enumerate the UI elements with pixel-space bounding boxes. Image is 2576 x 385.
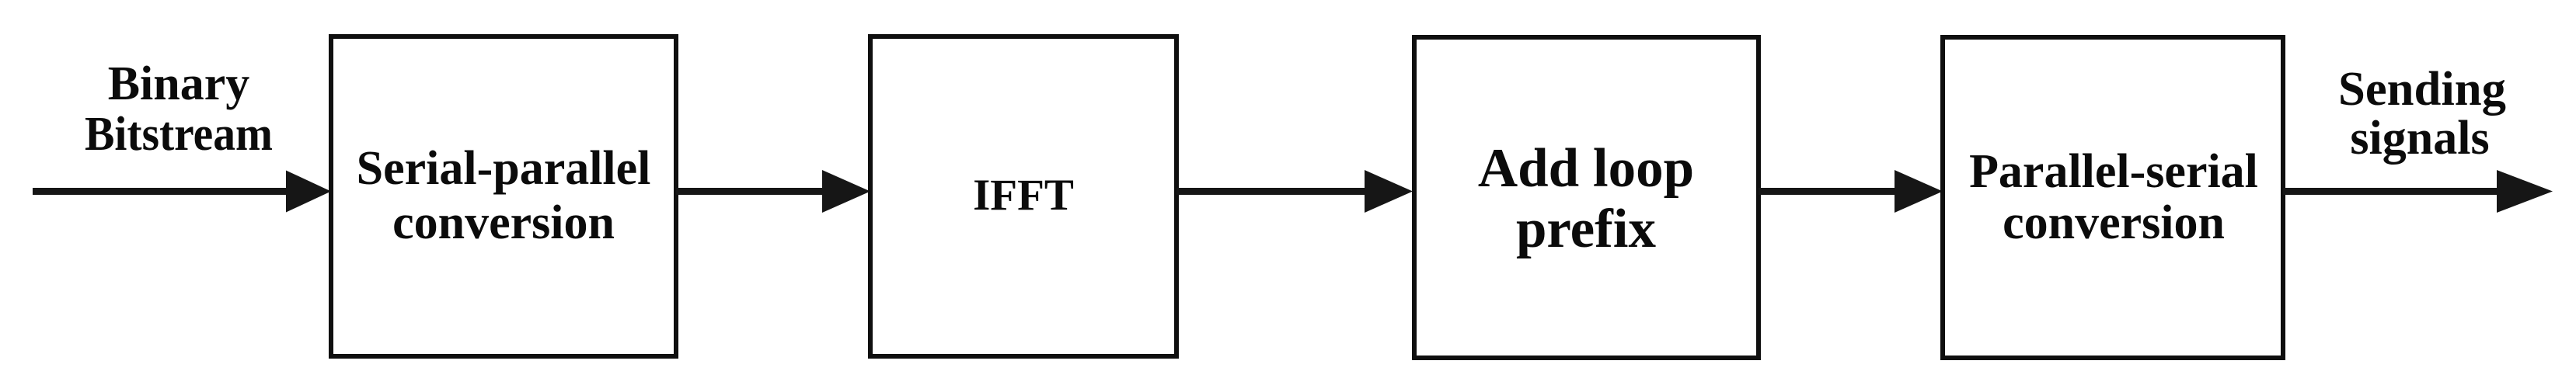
svg-text:conversion: conversion xyxy=(392,196,615,249)
svg-text:IFFT: IFFT xyxy=(973,171,1074,220)
label: Sending signals (output net name) xyxy=(2338,63,2506,165)
svg-text:Binary: Binary xyxy=(108,57,250,110)
svg-text:Add loop: Add loop xyxy=(1478,138,1694,199)
wire: arrow from Serial-parallel conversion to IFFT xyxy=(676,170,870,213)
svg-text:signals: signals xyxy=(2350,112,2489,165)
svg-text:prefix: prefix xyxy=(1516,199,1657,259)
wire: arrow from Add loop prefix to Parallel-serial conversion xyxy=(1759,170,1943,213)
svg-text:Sending: Sending xyxy=(2338,63,2506,116)
block: Serial-parallel conversion xyxy=(331,36,676,356)
block: IFFT xyxy=(870,36,1176,356)
svg-text:Bitstream: Bitstream xyxy=(85,108,273,161)
svg-text:conversion: conversion xyxy=(2003,196,2225,249)
block: Parallel-serial conversion xyxy=(1943,37,2283,358)
block: Add loop prefix xyxy=(1414,37,1759,358)
wire: input arrow into Serial-parallel conversion xyxy=(33,171,331,213)
svg-text:Serial-parallel: Serial-parallel xyxy=(357,142,651,195)
label: Binary Bitstream (input net name) xyxy=(85,57,273,161)
wire: arrow from IFFT to Add loop prefix xyxy=(1176,170,1413,213)
wire: output arrow (Sending signals) xyxy=(2283,170,2553,213)
svg-text:Parallel-serial: Parallel-serial xyxy=(1969,145,2258,198)
